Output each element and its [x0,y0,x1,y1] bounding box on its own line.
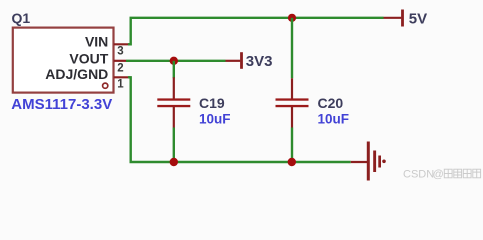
svg-text:VOUT: VOUT [69,50,108,66]
capacitor C20 bottom lead [291,107,293,128]
3V3 power port lead [226,60,241,62]
svg-text:3: 3 [117,46,123,58]
svg-text:Q1: Q1 [12,10,31,26]
5V power port bar [401,10,404,27]
ground symbol dot [382,160,386,164]
ground symbol bar 2 [373,151,376,173]
svg-text:5V: 5V [409,10,427,27]
pin 1 dot marker [103,83,108,88]
svg-text:@: @ [433,169,444,181]
svg-text:AMS1117-3.3V: AMS1117-3.3V [11,96,112,113]
pin 1 stub [114,76,131,78]
ground symbol bar 3 [378,156,381,168]
wire: C20 to ground rail [291,128,293,163]
regulator U-box body [13,28,114,93]
svg-text:10uF: 10uF [199,111,231,126]
svg-text:C20: C20 [318,95,344,111]
capacitor C20 plates [276,98,309,100]
svg-text:ADJ/GND: ADJ/GND [45,66,108,82]
capacitor C20 top lead [291,78,293,99]
wire: VIN up to 5V rail [128,18,384,45]
watermark CSDN [403,169,481,181]
ground symbol bar 1 [367,142,370,181]
svg-text:10uF: 10uF [318,111,350,126]
junction ground rail at C19 [170,158,178,166]
capacitor C19 bottom lead [173,107,175,128]
capacitor C19 top lead [173,77,175,99]
svg-text:2: 2 [117,62,123,74]
pin 3 stub [114,43,131,45]
wire: ADJ/GND down and along ground rail [128,77,351,162]
wire: 5V rail down to C20 [291,18,293,79]
wire: C19 to ground rail [173,128,175,163]
pin 2 stub [114,60,126,62]
junction on VOUT net [170,57,178,65]
junction on 5V rail [288,14,296,22]
svg-text:VIN: VIN [85,34,108,50]
wire: VOUT to 3V3 [126,60,226,62]
wire: VOUT junction down to C19 [173,61,175,79]
svg-text:C19: C19 [199,95,225,111]
5V power port lead [384,17,402,19]
svg-text:1: 1 [117,79,124,91]
svg-text:3V3: 3V3 [246,53,273,70]
ground symbol lead [351,161,367,163]
capacitor C19 plates [157,98,190,100]
3V3 power port bar [240,52,243,69]
svg-text:CSDN: CSDN [403,169,434,181]
junction ground rail at C20 [288,158,296,166]
